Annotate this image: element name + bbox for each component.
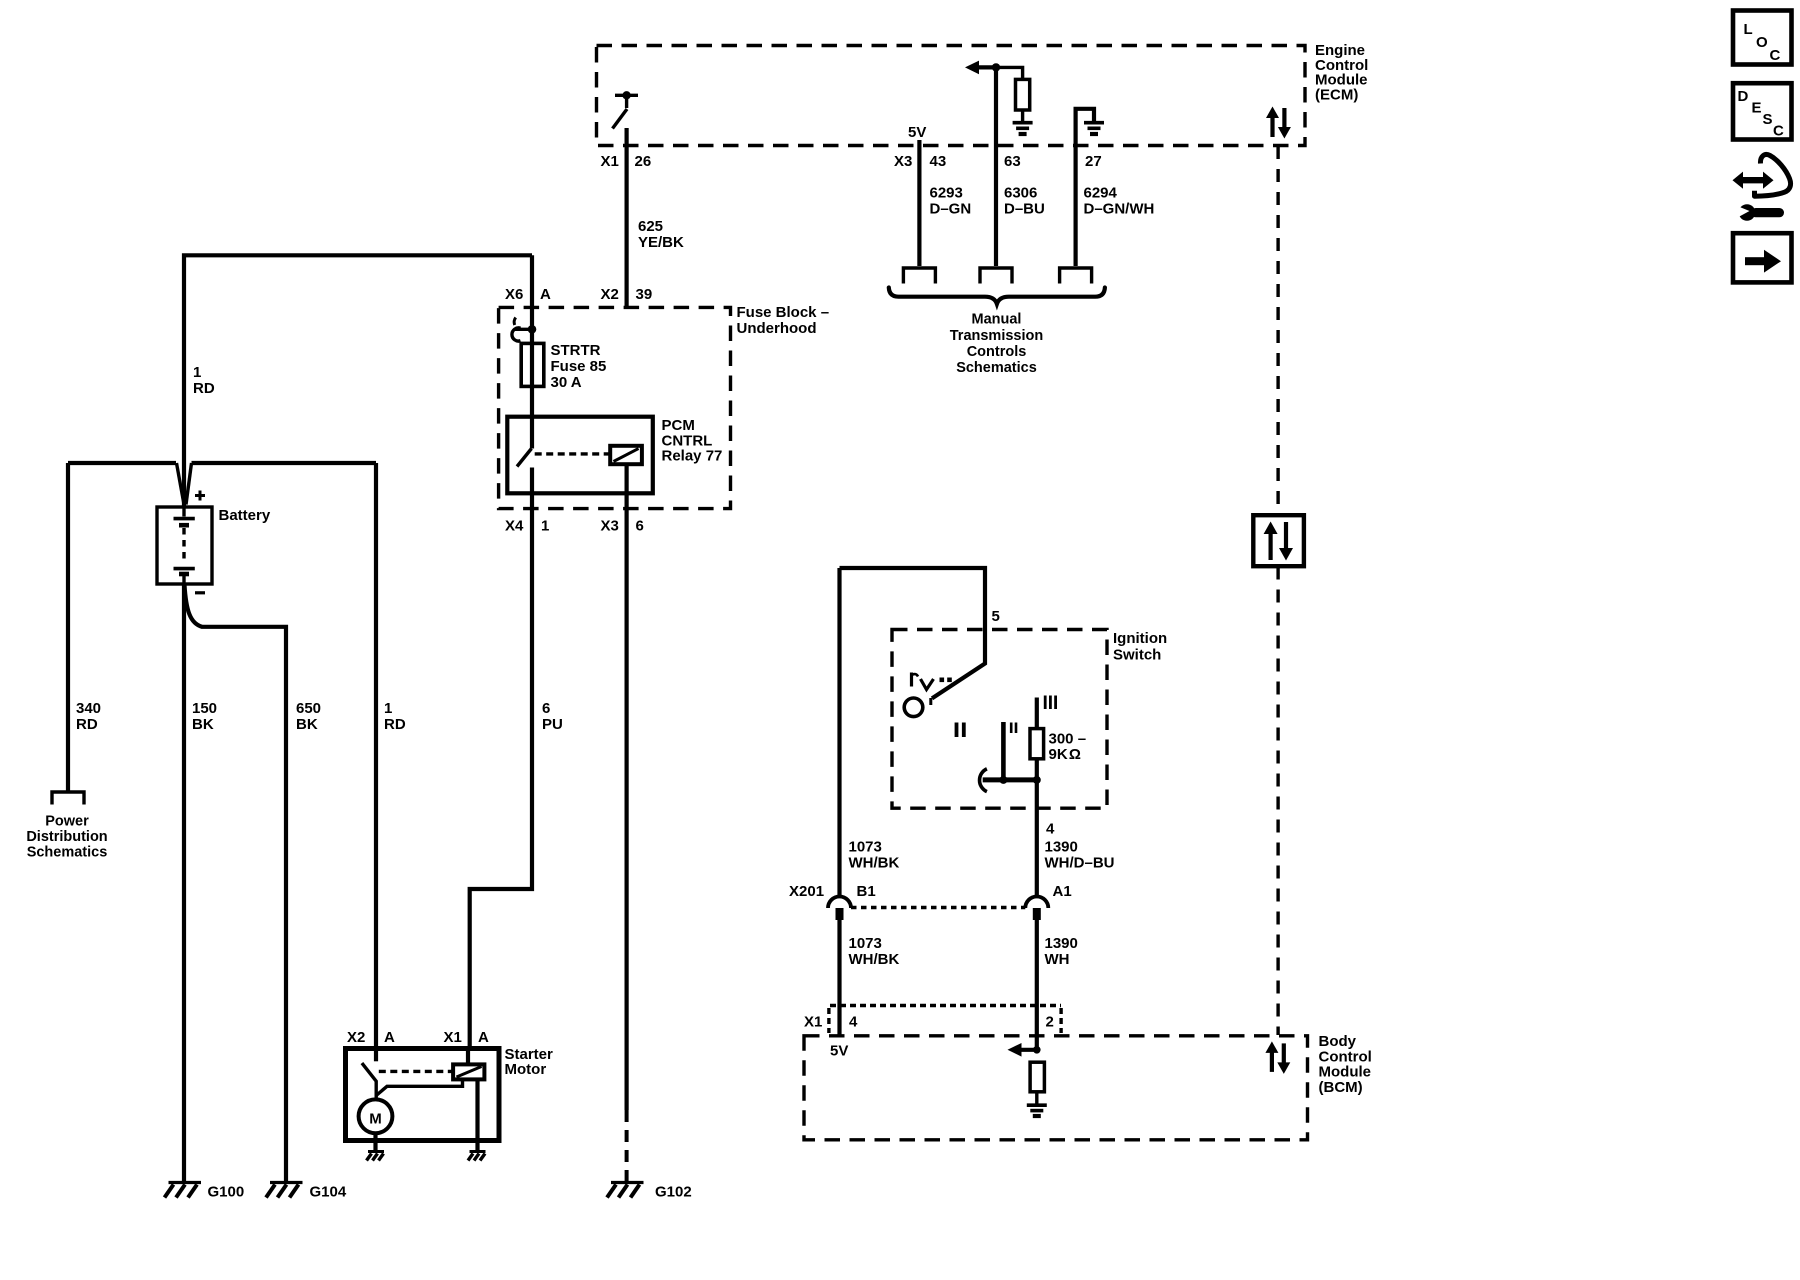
icon LOC box (1733, 11, 1792, 65)
value label 1 RD (starter) (384, 700, 406, 733)
svg-text:Schematics: Schematics (27, 845, 108, 861)
wire 150 BK battery negative to G100 (182, 584, 186, 1182)
value label 300 - 9K ohm (1049, 731, 1087, 764)
wire 340 RD down (66, 463, 70, 792)
symbol data-link arrows (BCM) (1265, 1041, 1290, 1074)
svg-text:1: 1 (193, 364, 201, 381)
svg-text:6: 6 (542, 700, 550, 717)
svg-text:6293: 6293 (930, 185, 963, 202)
wire 1 RD to starter motor X2 (374, 463, 378, 1049)
wire 6306 D-BU (pin 63) (994, 67, 998, 266)
value label 1390 WH/D-BU (1045, 839, 1115, 872)
wire to starter X2 (192, 461, 377, 465)
svg-text:WH: WH (1045, 951, 1070, 968)
svg-text:C: C (1773, 123, 1784, 140)
svg-text:150: 150 (192, 700, 217, 717)
pin X2 39 (601, 286, 653, 303)
svg-text:D–BU: D–BU (1004, 201, 1045, 218)
relay contact starter solenoid (362, 1049, 463, 1098)
svg-text:PU: PU (542, 716, 563, 733)
svg-text:340: 340 (76, 700, 101, 717)
node V-splice at battery positive (177, 463, 192, 505)
value label 1073 WH/BK (849, 839, 900, 872)
node junction II-bar (999, 776, 1007, 784)
wire 650 BK branch (185, 585, 287, 1182)
arrow signal out (BCM internal) (1008, 1043, 1041, 1057)
svg-text:6306: 6306 (1004, 185, 1037, 202)
svg-text:1: 1 (541, 518, 549, 535)
svg-text:5V: 5V (908, 124, 926, 141)
svg-text:650: 650 (296, 700, 321, 717)
relay linkage dashed (starter) (379, 1070, 452, 1073)
wire 6294 D-GN/WH (pin 27) (1076, 109, 1094, 266)
ground G100 (165, 1183, 245, 1201)
label Starter Motor (505, 1046, 554, 1078)
wire position II contact (1001, 722, 1006, 780)
svg-text:Distribution: Distribution (26, 829, 107, 845)
wire 6293 D-GN (pin 43) (917, 140, 921, 266)
wire dashed serial data (box to BCM) (1276, 567, 1279, 1036)
svg-text:5: 5 (992, 608, 1000, 625)
resistor BCM pull-down (1030, 1062, 1044, 1103)
ground starter case left (367, 1152, 385, 1161)
svg-text:WH/D–BU: WH/D–BU (1045, 855, 1115, 872)
svg-text:2: 2 (1046, 1014, 1054, 1031)
module box BCM (804, 1036, 1308, 1140)
svg-text:C: C (1770, 47, 1781, 64)
svg-text:A: A (478, 1029, 489, 1046)
wire ignition feed (840, 568, 986, 698)
svg-text:L: L (1744, 21, 1753, 38)
svg-text:26: 26 (635, 153, 652, 170)
svg-text:WH/BK: WH/BK (849, 951, 900, 968)
wire 1073 WH/BK (ignition B to X201 B1) (837, 568, 841, 897)
svg-text:Controls: Controls (967, 344, 1027, 360)
symbol data-link box (splice pack) (1253, 515, 1304, 566)
svg-text:Fuse 85: Fuse 85 (551, 358, 607, 375)
icon wrench (1736, 204, 1784, 221)
svg-text:Ignition: Ignition (1113, 630, 1167, 647)
pin X3 6 (601, 518, 644, 535)
svg-text:B1: B1 (857, 883, 876, 900)
svg-text:D–GN: D–GN (930, 201, 972, 218)
connector off-page power distribution (52, 792, 84, 805)
module box Starter Motor (346, 1049, 500, 1141)
battery B1 (157, 491, 212, 593)
svg-text:4: 4 (849, 1014, 858, 1031)
resistor 300-9K ohm (1030, 698, 1044, 780)
value label 150 BK (192, 700, 217, 733)
ground G102 (607, 1183, 692, 1201)
brace manual transmission controls (889, 288, 1105, 304)
svg-text:Relay 77: Relay 77 (662, 448, 723, 465)
pin X1 A (starter) (444, 1029, 490, 1046)
wire dashed serial data (ECM to BCM) (1276, 146, 1279, 515)
connector off-page 63 (980, 268, 1012, 284)
module box Ignition Switch (892, 630, 1107, 809)
svg-text:Battery: Battery (219, 507, 271, 524)
svg-text:D–GN/WH: D–GN/WH (1084, 201, 1155, 218)
svg-text:Fuse Block –: Fuse Block – (737, 304, 830, 321)
node bus tap at fuse (512, 318, 536, 342)
svg-text:X2: X2 (601, 286, 619, 303)
symbol data-link arrows (ECM) (1266, 107, 1291, 139)
svg-text:1390: 1390 (1045, 839, 1078, 856)
value label 6293 D-GN (930, 185, 972, 218)
svg-text:A1: A1 (1053, 883, 1072, 900)
svg-text:1073: 1073 (849, 839, 882, 856)
value label 6306 D-BU (1004, 185, 1045, 218)
svg-text:X3: X3 (601, 518, 619, 535)
connector off-page 43 (903, 268, 935, 284)
svg-text:(ECM): (ECM) (1315, 87, 1358, 104)
svg-text:YE/BK: YE/BK (638, 234, 684, 251)
svg-text:27: 27 (1085, 153, 1102, 170)
fuse STRTR Fuse 85 30A (521, 343, 544, 386)
wire coil to case ground (475, 1080, 479, 1150)
wire 625 YE/BK (ECM X1-26 to fuse block X2-39) (624, 128, 628, 307)
label Power Distribution Schematics (26, 814, 107, 861)
value label 340 RD (76, 700, 101, 733)
relay PCM CNTRL Relay 77 box (507, 417, 653, 494)
relay contact blade (517, 449, 532, 467)
svg-text:STRTR: STRTR (551, 342, 601, 359)
pin X6 A (505, 286, 551, 303)
svg-text:63: 63 (1004, 153, 1021, 170)
value label 625 YE/BK (638, 218, 684, 251)
relay linkage dashed (535, 452, 609, 455)
pin X3 43 (894, 153, 946, 170)
svg-text:RD: RD (384, 716, 406, 733)
svg-text:Switch: Switch (1113, 647, 1161, 664)
svg-text:G102: G102 (655, 1184, 692, 1201)
ground BCM internal (1027, 1105, 1047, 1116)
connector X201 A1 (1025, 897, 1048, 921)
node blade tip stub (929, 698, 932, 705)
svg-text:X4: X4 (505, 518, 524, 535)
svg-text:X201: X201 (789, 883, 824, 900)
svg-text:6294: 6294 (1084, 185, 1118, 202)
svg-text:E: E (1752, 100, 1762, 117)
value label 6 PU (542, 700, 563, 733)
wire wiper common bar (983, 777, 1039, 782)
motor M (359, 1099, 393, 1133)
label Body Control Module (BCM) (1319, 1033, 1372, 1096)
node position II mark (957, 723, 964, 738)
svg-text:39: 39 (636, 286, 653, 303)
svg-text:A: A (384, 1029, 395, 1046)
svg-text:G104: G104 (310, 1184, 347, 1201)
wire battery feed through fuse (530, 255, 534, 448)
ground ECM internal 1 (1013, 123, 1033, 134)
wire 1 RD battery positive to fuse block (184, 255, 532, 507)
svg-text:RD: RD (76, 716, 98, 733)
wire 1073 WH/BK (X201 to BCM X1-4) (837, 920, 841, 1035)
svg-text:Transmission: Transmission (950, 328, 1043, 344)
svg-text:X3: X3 (894, 153, 912, 170)
svg-text:X6: X6 (505, 286, 523, 303)
wire motor to case ground (373, 1133, 377, 1150)
label Engine Control Module (ECM) (1315, 42, 1368, 104)
label Ignition Switch (1113, 630, 1167, 664)
svg-text:RD: RD (193, 380, 215, 397)
svg-text:625: 625 (638, 218, 663, 235)
switch S-ECM (starter enable, pin 26) (613, 91, 639, 128)
svg-text:O: O (1756, 34, 1768, 51)
node position II small mark (1011, 723, 1016, 734)
value label 1390 WH (1045, 935, 1078, 968)
connector BCM X1 strip (829, 1006, 1061, 1034)
value label STRTR Fuse 85 30 A (551, 342, 607, 391)
icon harness routing (1733, 154, 1791, 196)
svg-text:43: 43 (930, 153, 947, 170)
svg-text:G100: G100 (208, 1184, 245, 1201)
svg-text:WH/BK: WH/BK (849, 855, 900, 872)
arrow signal out (ECM internal) (965, 61, 996, 75)
svg-text:6: 6 (636, 518, 644, 535)
node contact jaw (980, 769, 987, 792)
module box ECM (597, 46, 1306, 146)
icon DESC box (1733, 83, 1792, 139)
resistor R-ECM (pull-up) (996, 67, 1030, 121)
svg-text:Schematics: Schematics (956, 360, 1037, 376)
wire relay output 6 PU (470, 468, 532, 1050)
svg-text:A: A (540, 286, 551, 303)
value label 6294 D-GN/WH (1084, 185, 1155, 218)
svg-text:1390: 1390 (1045, 935, 1078, 952)
svg-text:S: S (1763, 111, 1773, 128)
svg-text:M: M (369, 1111, 382, 1128)
ground ECM internal 2 (1084, 123, 1104, 134)
pin X4 1 (505, 518, 549, 535)
svg-text:1: 1 (384, 700, 392, 717)
svg-text:Underhood: Underhood (737, 320, 817, 337)
wire dashed connector X201 body (851, 906, 1025, 910)
wire dashed to G102 (625, 1110, 629, 1181)
node junction pin 63 net (992, 63, 1000, 71)
svg-text:BK: BK (192, 716, 214, 733)
svg-text:Manual: Manual (972, 312, 1022, 328)
svg-text:300 –: 300 – (1049, 731, 1087, 748)
svg-text:1073: 1073 (849, 935, 882, 952)
module box Fuse Block Underhood (499, 307, 731, 508)
node junction resistor-bar (1033, 776, 1041, 784)
svg-text:X1: X1 (601, 153, 619, 170)
svg-text:(BCM): (BCM) (1319, 1079, 1363, 1096)
value label 1 RD (battery feed) (193, 364, 215, 397)
value label 650 BK (296, 700, 321, 733)
label Manual Transmission Controls Schematics (950, 312, 1043, 377)
svg-text:4: 4 (1046, 821, 1055, 838)
svg-text:X2: X2 (347, 1029, 365, 1046)
switch contact circle (ignition) (904, 698, 923, 717)
svg-text:30 A: 30 A (551, 374, 582, 391)
wire bus 340 RD horizontal (68, 461, 176, 465)
connector X201 B1 (828, 897, 851, 921)
pin X1 26 (601, 153, 652, 170)
symbol key icon (912, 673, 952, 690)
relay coil box (610, 446, 642, 464)
svg-text:X1: X1 (444, 1029, 462, 1046)
pin X2 A (starter) (347, 1029, 395, 1046)
value label 1073 WH/BK lower (849, 935, 900, 968)
wire 1390 WH (X201 to BCM X1-2) (1035, 920, 1039, 1050)
label Fuse Block - Underhood (737, 304, 830, 337)
relay coil starter solenoid (453, 1049, 484, 1079)
svg-text:Power: Power (45, 814, 89, 830)
label PCM CNTRL Relay 77 (662, 417, 723, 465)
ground starter case right (468, 1152, 486, 1161)
connector off-page 27 (1060, 268, 1092, 284)
wire relay coil to G102 (624, 464, 628, 1110)
wire 1390 WH/D-BU (ignition 4 to X201 A1) (1035, 780, 1039, 897)
svg-text:5V: 5V (830, 1043, 848, 1060)
svg-text:Motor: Motor (505, 1061, 547, 1078)
icon next-page arrow box (1733, 233, 1792, 282)
svg-text:X1: X1 (804, 1014, 822, 1031)
node position III mark (1045, 696, 1055, 710)
svg-text:9K Ω: 9K Ω (1049, 746, 1081, 763)
svg-text:D: D (1738, 88, 1749, 105)
ground G104 (266, 1183, 347, 1201)
svg-text:BK: BK (296, 716, 318, 733)
